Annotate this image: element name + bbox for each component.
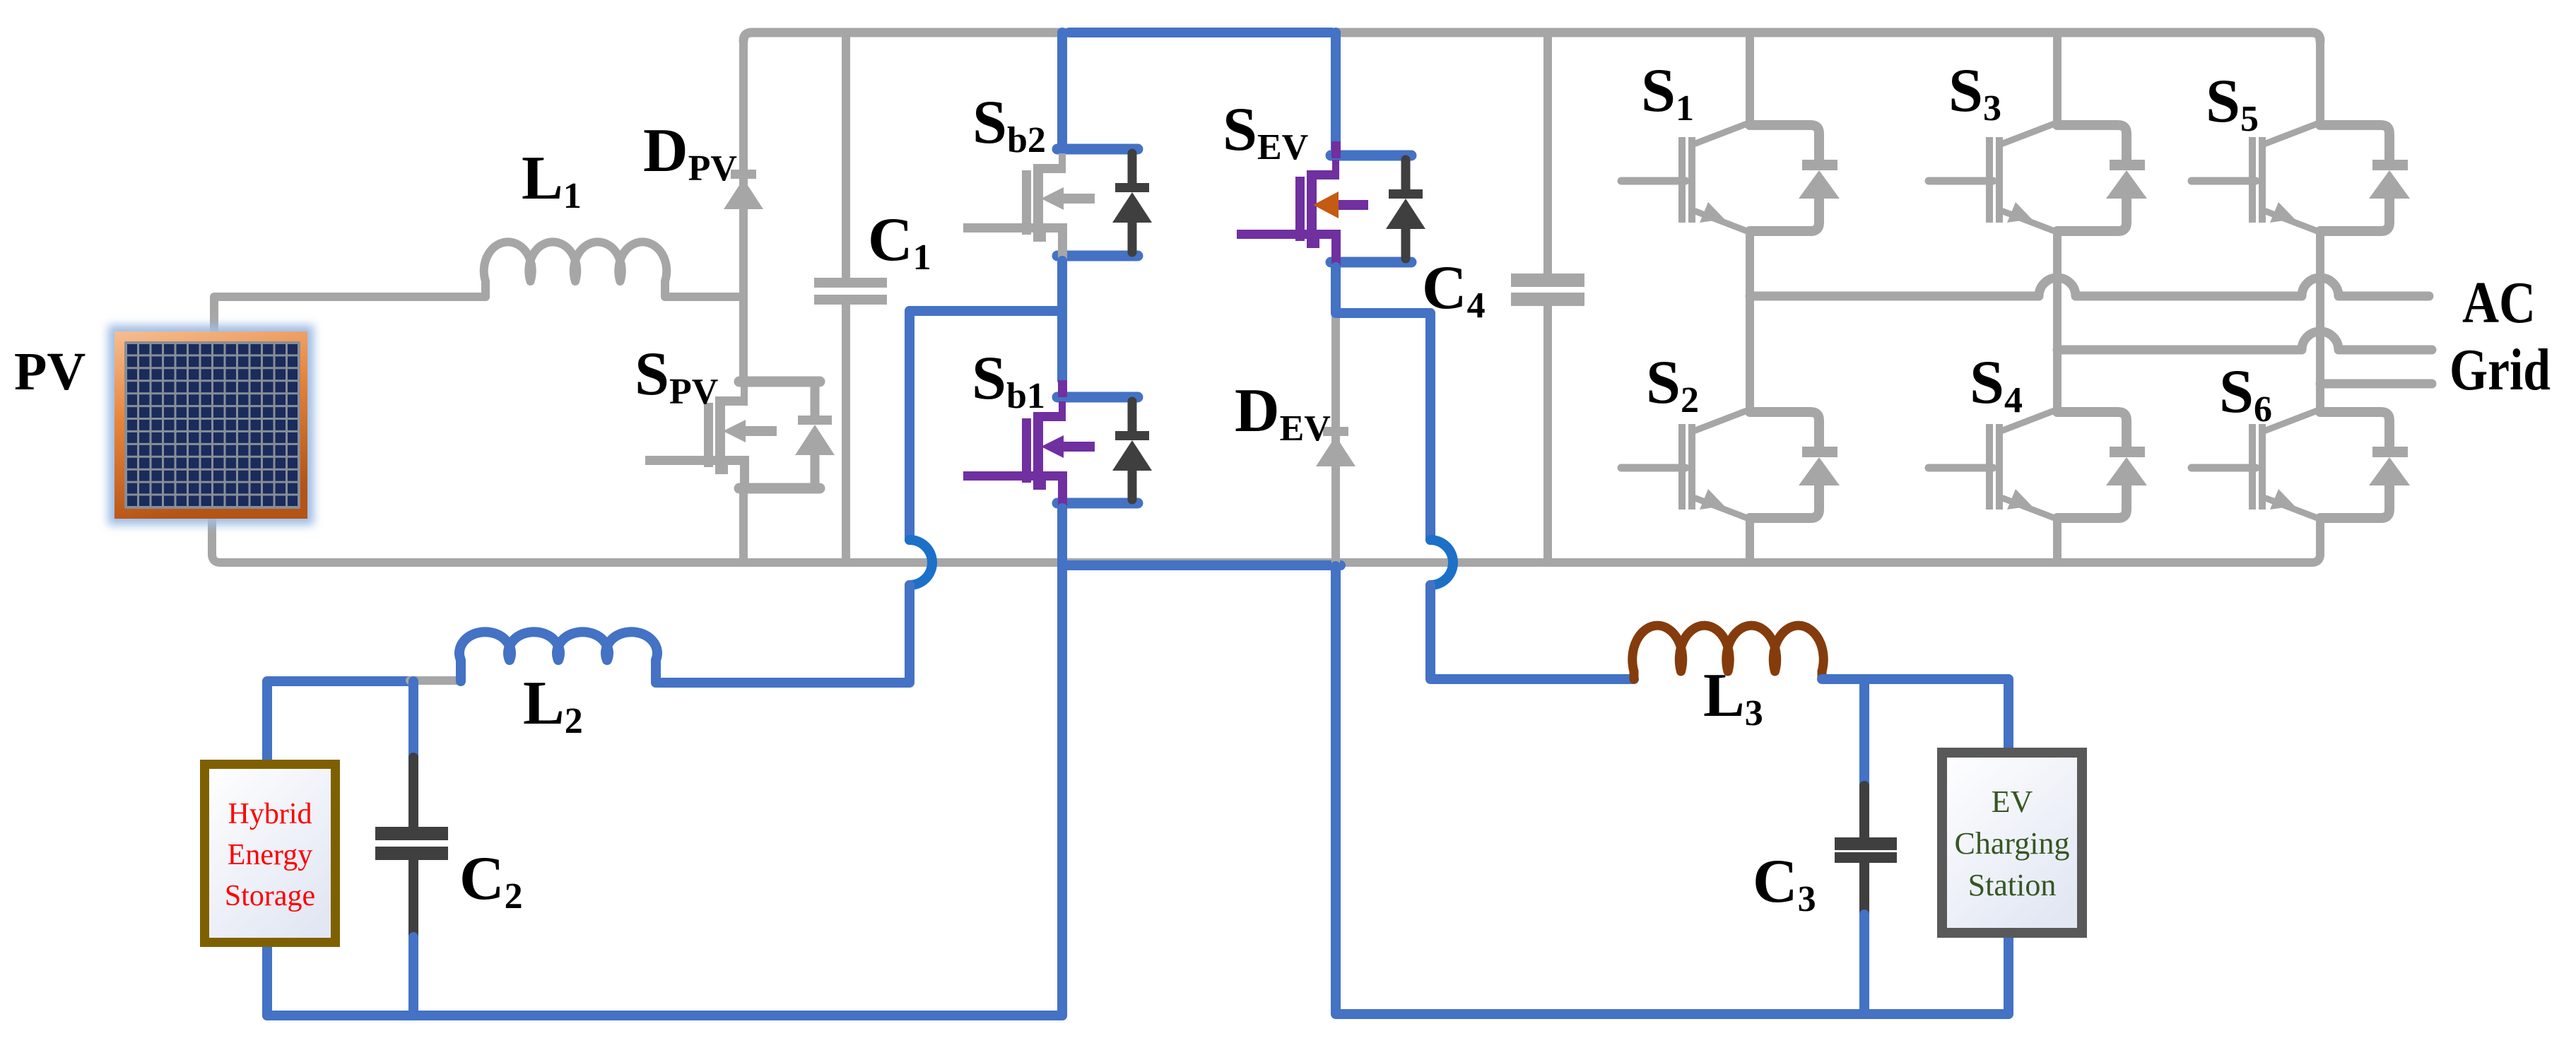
- wire HES bottom lead: [262, 947, 272, 1015]
- svg-text:S1: S1: [1641, 57, 1694, 129]
- wire bottom DC bus (gray): [212, 554, 1343, 563]
- svg-text:Grid: Grid: [2449, 337, 2551, 403]
- wire hop arc over bottom bus (azure): [910, 540, 932, 585]
- wire bottom bus blue overlay segment: [1062, 560, 1341, 570]
- capacitor C1: [814, 33, 887, 563]
- svg-text:SPV: SPV: [635, 340, 718, 412]
- wire S_EV drain from top bus: [1331, 33, 1341, 151]
- svg-text:SEV: SEV: [1223, 95, 1308, 167]
- svg-text:C3: C3: [1753, 847, 1816, 919]
- diode D_EV: [1316, 427, 1355, 466]
- svg-text:Storage: Storage: [225, 880, 315, 912]
- IGBT S2: [1621, 405, 1840, 525]
- diode D_PV: [724, 170, 763, 209]
- wire S_PV source to bottom bus: [739, 493, 748, 563]
- inductor L3 (brown): [1633, 625, 1823, 679]
- wire phase A with hops: [1750, 278, 2429, 296]
- svg-text:Sb1: Sb1: [972, 344, 1045, 416]
- wire from hop down to L2 right end: [658, 585, 910, 683]
- svg-text:Hybrid: Hybrid: [228, 798, 312, 830]
- wire PV positive to L1: [214, 297, 486, 332]
- svg-text:Energy: Energy: [228, 839, 313, 871]
- svg-text:Charging: Charging: [1955, 826, 2070, 861]
- wire D_EV vertical: [1331, 317, 1340, 563]
- transistor S_EV (purple MOSFET, orange arrow, dark diode, blue bars): [1237, 141, 1425, 277]
- wire down from node to hop over bus: [905, 311, 914, 540]
- svg-text:DEV: DEV: [1235, 377, 1331, 449]
- svg-text:EV: EV: [1992, 784, 2033, 819]
- wire gray stub before L2: [410, 676, 461, 685]
- svg-text:S5: S5: [2206, 67, 2259, 139]
- box EV Charging Station: [1942, 753, 2082, 933]
- solar panel PV: [108, 325, 314, 525]
- wire node between Sb2/Sb1 going left: [910, 306, 1062, 316]
- wire L3 to EV box top: [1822, 679, 2009, 755]
- capacitor C2 (dark) with blue leads: [375, 681, 448, 1015]
- svg-text:S3: S3: [1948, 57, 2001, 129]
- inverter leg S1/S2 verticals: [1746, 33, 1754, 563]
- svg-text:Station: Station: [1968, 868, 2057, 902]
- svg-text:PV: PV: [14, 342, 86, 401]
- svg-text:AC: AC: [2462, 270, 2536, 336]
- inverter leg S3/S4 verticals: [2053, 33, 2062, 563]
- wire from hop down to L3: [1430, 585, 1634, 679]
- wire D_PV branch vertical: [739, 40, 748, 297]
- svg-text:C1: C1: [868, 206, 931, 278]
- wire top bus blue segment: [1069, 28, 1331, 37]
- IGBT S6: [2192, 405, 2410, 525]
- inductor L1: [484, 242, 743, 297]
- wire EV loop: below bus down-left vertical: [1336, 566, 2009, 1014]
- svg-text:C4: C4: [1422, 254, 1486, 326]
- inverter leg S5/S6 verticals: [2316, 40, 2324, 555]
- wire S_PV drain: [739, 297, 748, 377]
- IGBT S1: [1621, 118, 1840, 238]
- svg-text:S2: S2: [1646, 348, 1699, 420]
- svg-text:S6: S6: [2219, 358, 2272, 430]
- IGBT S4: [1929, 405, 2147, 525]
- transistor Sb1 (purple MOSFET, dark diode, blue bars): [963, 380, 1152, 520]
- svg-text:DPV: DPV: [643, 117, 737, 189]
- wire phase B with hop: [2057, 331, 2432, 350]
- svg-text:L2: L2: [523, 669, 583, 741]
- svg-text:L3: L3: [1703, 661, 1763, 734]
- IGBT S3: [1929, 118, 2147, 238]
- wire HES top lead: [267, 681, 410, 760]
- wire Sb1 source down through bus to bottom loop: [1057, 508, 1067, 1015]
- svg-text:C2: C2: [459, 844, 523, 917]
- svg-text:Sb2: Sb2: [972, 88, 1046, 160]
- wire phase C: [2320, 379, 2432, 389]
- capacitor C4: [1511, 33, 1584, 563]
- transistor Sb2 (gray MOSFET, dark diode, blue bars): [963, 149, 1152, 271]
- svg-text:L1: L1: [522, 144, 582, 216]
- wire hop arc over bottom bus (azure, EV side): [1430, 540, 1453, 585]
- inductor L2 (blue): [459, 632, 657, 683]
- box Hybrid Energy Storage: [205, 765, 336, 943]
- wire PV negative to bottom bus: [208, 516, 216, 555]
- capacitor C3 (dark) with blue leads: [1835, 679, 1897, 1014]
- IGBT S5: [2192, 118, 2410, 238]
- wire Sb2 drain from top bus: [1057, 33, 1067, 145]
- transistor S_PV (gray MOSFET with body diode): [645, 382, 835, 488]
- svg-text:S4: S4: [1970, 348, 2023, 420]
- wire bottom-left loop: [267, 1011, 1062, 1020]
- wire top DC bus (gray): [743, 33, 2320, 41]
- wire S_EV source to right and down: [1336, 267, 1430, 540]
- wire Sb2 source to Sb1 drain: [1057, 261, 1067, 380]
